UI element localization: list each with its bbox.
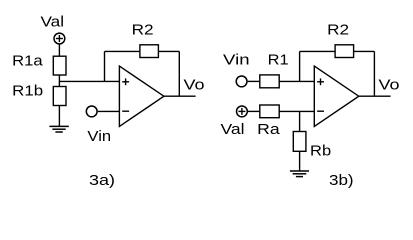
- svg-text:Ra: Ra: [257, 122, 280, 138]
- svg-text:R1b: R1b: [12, 83, 43, 99]
- svg-text:3a): 3a): [89, 173, 115, 189]
- svg-text:Vin: Vin: [87, 129, 111, 145]
- wire feedback top left segment (3b): [300, 50, 336, 52]
- terminal Vin (3b) input terminal: [236, 76, 247, 87]
- svg-text:Val: Val: [220, 122, 244, 138]
- wire output Vo (3b): [359, 95, 391, 97]
- wire Rb to ground: [299, 151, 301, 171]
- wire Ra to op-amp U2 inverting input: [279, 110, 314, 112]
- wire feedback right vertical to output (3b): [373, 51, 375, 96]
- svg-text:Rb: Rb: [310, 143, 331, 159]
- resistor Ra: [260, 105, 279, 118]
- ground (3a): [49, 126, 68, 132]
- svg-text:3b): 3b): [329, 173, 354, 189]
- ground (3b): [290, 171, 309, 177]
- wire R1b to ground: [58, 106, 60, 127]
- svg-text:R2: R2: [132, 22, 154, 38]
- resistor R1a: [53, 56, 66, 75]
- wire Vin terminal to op-amp U1 inverting input: [98, 110, 120, 112]
- wire feedback top left segment (3a): [105, 50, 140, 52]
- wire feedback left vertical (3b): [299, 51, 301, 81]
- wire R1 to op-amp U2 non-inverting input: [279, 80, 314, 82]
- svg-text:Vin: Vin: [223, 52, 250, 68]
- wire Val terminal to R1a: [58, 44, 60, 56]
- svg-text:R1: R1: [268, 52, 289, 68]
- resistor R2 (3a): [140, 45, 159, 58]
- resistor R2 (3b): [335, 45, 354, 58]
- wire feedback top right segment (3a): [158, 50, 179, 52]
- wire Vin terminal to R1: [248, 80, 260, 82]
- wire feedback right vertical to output (3a): [178, 51, 180, 96]
- wire R1a to R1b: [58, 75, 60, 87]
- terminal Val (3b) positive supply terminal: [237, 106, 248, 117]
- svg-text:R1a: R1a: [12, 53, 43, 69]
- resistor R1b: [53, 87, 66, 106]
- wire Val terminal to Ra: [248, 110, 260, 112]
- svg-text:R2: R2: [327, 22, 349, 38]
- svg-text:Val: Val: [40, 14, 64, 30]
- wire node A to op-amp U1 non-inverting input: [59, 80, 119, 82]
- wire output Vo (3a): [164, 95, 196, 97]
- wire node B to Rb: [299, 111, 301, 131]
- svg-text:Vo: Vo: [184, 77, 205, 93]
- terminal Vin (3a) input terminal: [86, 106, 97, 117]
- op-amp U1: [119, 66, 163, 126]
- wire feedback top right segment (3b): [354, 50, 375, 52]
- op-amp U2: [314, 66, 359, 126]
- svg-text:Vo: Vo: [379, 77, 400, 93]
- wire feedback left vertical (3a): [104, 51, 106, 81]
- terminal Val (3a) positive supply terminal: [54, 33, 65, 44]
- resistor Rb: [293, 132, 306, 152]
- resistor R1: [260, 75, 279, 88]
